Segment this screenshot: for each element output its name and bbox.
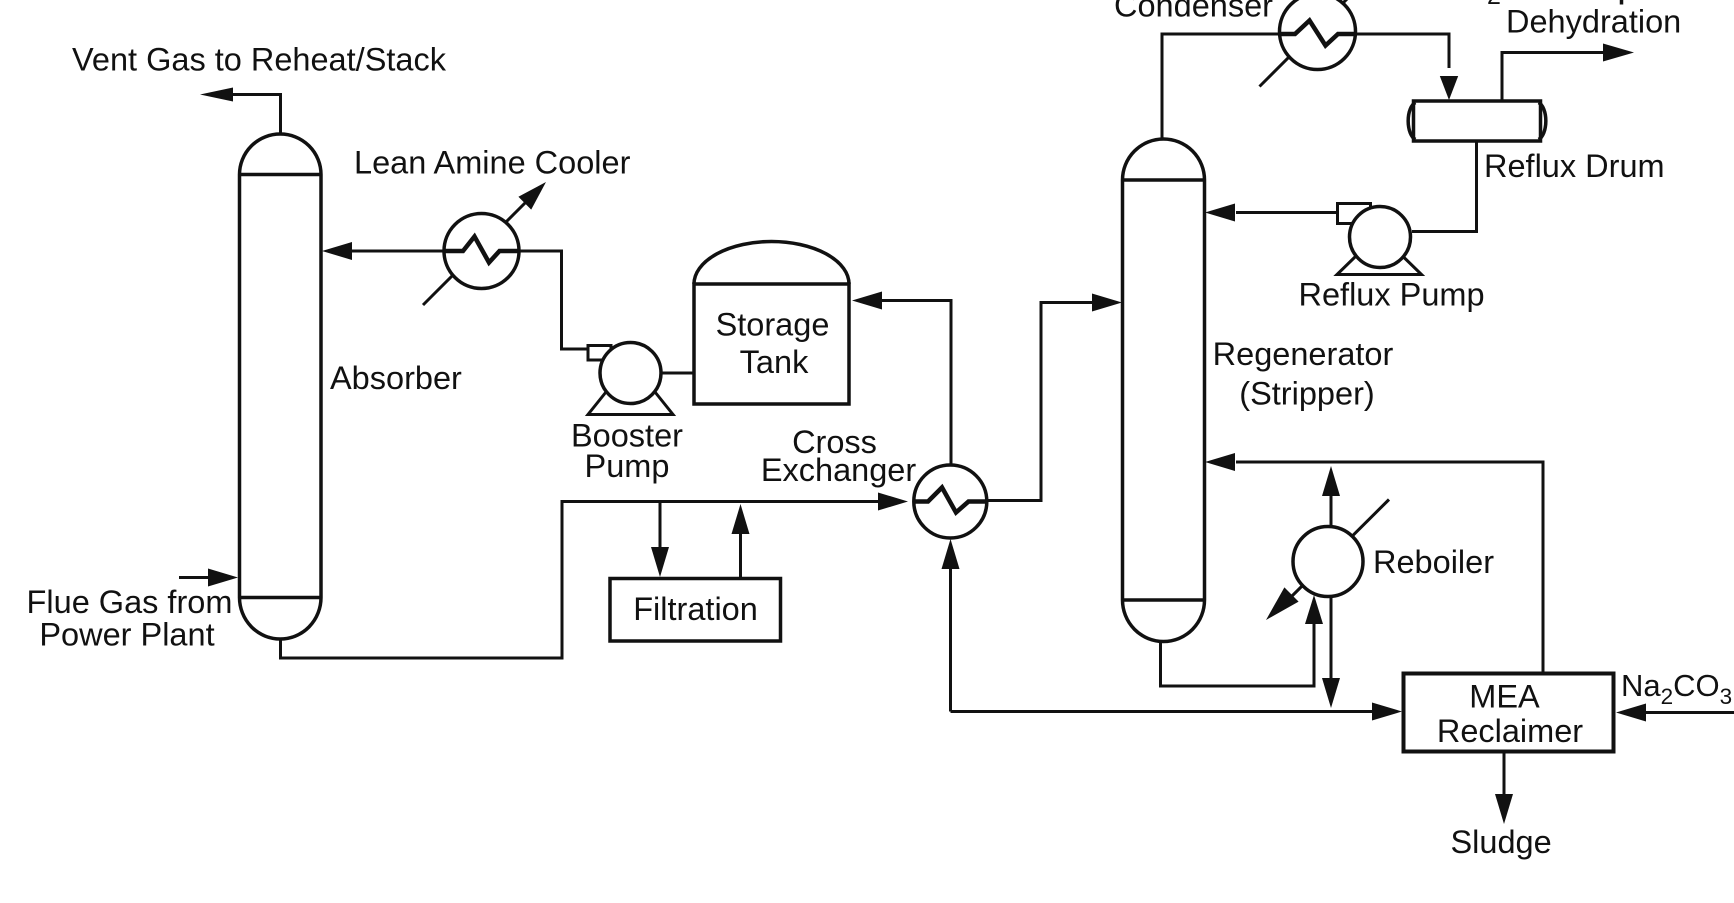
arrowhead CO2 to dehydration bbox=[1603, 44, 1634, 62]
svg-text:Sludge: Sludge bbox=[1451, 824, 1552, 860]
arrowhead up into reboiler bbox=[1305, 595, 1323, 624]
regenerator top weld line bbox=[1123, 178, 1205, 182]
arrowhead down into filtration bbox=[651, 547, 669, 577]
cooler zigzag bbox=[444, 237, 519, 263]
heat exchanger Condenser circle bbox=[1280, 0, 1356, 70]
reflux drum left end cap bbox=[1408, 103, 1415, 140]
booster pump circle bbox=[600, 343, 661, 404]
wire vent gas line from absorber top bbox=[232, 95, 281, 135]
wire reboiler top riser bbox=[1330, 496, 1333, 527]
wire absorber bottom to cross exchanger bbox=[281, 502, 879, 659]
wire CO2 gas outlet from drum bbox=[1502, 53, 1604, 102]
arrowhead flue gas into absorber bbox=[208, 569, 238, 587]
arrowhead up into cross exchanger bottom bbox=[942, 539, 960, 569]
cross exchanger zigzag bbox=[914, 488, 987, 513]
wire flue gas inlet line bbox=[179, 576, 208, 579]
arrowhead rich amine into cross exchanger bbox=[878, 493, 908, 511]
svg-text:Reboiler: Reboiler bbox=[1373, 544, 1494, 580]
arrowhead down into reflux drum bbox=[1440, 76, 1458, 100]
wire booster pump outlet to storage tank bbox=[661, 372, 694, 375]
svg-text:Pump: Pump bbox=[585, 448, 670, 484]
svg-text:MEA: MEA bbox=[1469, 679, 1540, 715]
reboiler utility diagonal bbox=[1289, 500, 1389, 600]
vessel Storage Tank body bbox=[694, 284, 849, 404]
vessel Reflux Drum bbox=[1414, 101, 1541, 141]
svg-text:Storage: Storage bbox=[716, 307, 830, 343]
arrowhead cooler utility (up-right) bbox=[518, 182, 546, 210]
svg-text:Absorber: Absorber bbox=[330, 360, 462, 396]
heat exchanger Lean Amine Cooler circle bbox=[444, 214, 519, 289]
condenser zigzag bbox=[1280, 21, 1356, 46]
svg-text:Vent Gas to Reheat/Stack: Vent Gas to Reheat/Stack bbox=[72, 42, 447, 78]
vessel Regenerator outline bbox=[1123, 139, 1205, 641]
arrowhead Na2CO3 into reclaimer bbox=[1616, 704, 1646, 722]
wire filtration return bbox=[739, 533, 742, 579]
wire lean amine header to MEA reclaimer bbox=[951, 710, 1374, 713]
heat exchanger Cross Exchanger circle bbox=[914, 465, 987, 538]
svg-text:Condenser: Condenser bbox=[1114, 0, 1273, 24]
arrowhead vapor into regenerator bbox=[1205, 453, 1235, 471]
svg-text:Reclaimer: Reclaimer bbox=[1437, 713, 1583, 749]
wire filtration feed tee bbox=[659, 502, 662, 549]
arrowhead up from filtration bbox=[732, 504, 750, 534]
pump Booster Pump suction box bbox=[588, 346, 611, 361]
arrowhead into storage tank bbox=[852, 292, 882, 310]
arrowhead lean amine into absorber bbox=[322, 242, 352, 260]
booster pump base bbox=[588, 392, 673, 415]
arrowhead reflux into regenerator bbox=[1205, 204, 1235, 222]
box Filtration bbox=[610, 579, 781, 642]
svg-text:Flue Gas from: Flue Gas from bbox=[27, 584, 233, 620]
reflux pump circle bbox=[1350, 207, 1411, 268]
arrowhead up into vapor line bbox=[1322, 466, 1340, 496]
svg-text:Filtration: Filtration bbox=[633, 591, 758, 627]
arrowhead vent gas (left) bbox=[200, 88, 233, 102]
wire drum bottom to reflux pump bbox=[1412, 141, 1477, 232]
wire reboiler bottom drain bbox=[1330, 596, 1333, 678]
arrowhead rich amine into regenerator bbox=[1092, 294, 1122, 312]
svg-text:Power Plant: Power Plant bbox=[39, 617, 214, 653]
svg-text:Tank: Tank bbox=[740, 344, 809, 380]
svg-text:Regenerator: Regenerator bbox=[1213, 336, 1394, 372]
absorber top weld line bbox=[240, 173, 322, 177]
pump Reflux Pump suction box bbox=[1338, 204, 1371, 224]
arrowhead sludge down bbox=[1495, 794, 1513, 824]
arrowhead into MEA reclaimer bbox=[1372, 703, 1402, 721]
regenerator bottom weld line bbox=[1123, 598, 1205, 602]
wire reboiler vapor return line bbox=[1236, 462, 1543, 674]
heat exchanger Reboiler circle bbox=[1293, 527, 1363, 597]
vessel Storage Tank dome bbox=[694, 242, 849, 285]
absorber bottom weld line bbox=[240, 596, 322, 600]
svg-text:Na2CO3: Na2CO3 bbox=[1621, 668, 1732, 709]
svg-text:Reflux Pump: Reflux Pump bbox=[1299, 277, 1485, 313]
condenser utility diagonal bbox=[1260, 0, 1353, 87]
svg-text:(Stripper): (Stripper) bbox=[1239, 376, 1374, 412]
wire sludge outlet bbox=[1503, 752, 1506, 795]
wire hot lean amine up into cross exchanger bbox=[949, 568, 952, 712]
svg-text:2: 2 bbox=[1487, 0, 1501, 10]
wire lean amine to absorber (from cooler) bbox=[352, 250, 444, 253]
wire regenerator bottoms to reboiler bbox=[1161, 623, 1315, 686]
wire cooler outlet to booster pump bbox=[519, 251, 589, 349]
box MEA Reclaimer bbox=[1404, 674, 1614, 752]
wire reflux to regenerator bbox=[1236, 211, 1338, 214]
cooler utility diagonal bbox=[423, 195, 533, 305]
label fragment descender bbox=[1620, 0, 1624, 5]
reflux drum right end cap bbox=[1539, 103, 1546, 140]
reflux pump base bbox=[1337, 256, 1422, 275]
arrowhead reboiler condensate (down-left) bbox=[1266, 587, 1299, 620]
wire regenerator overhead to condenser to drum bbox=[1162, 34, 1449, 139]
arrowhead down to lean line bbox=[1322, 678, 1340, 708]
svg-text:Exchanger: Exchanger bbox=[761, 452, 917, 488]
svg-text:Dehydration: Dehydration bbox=[1506, 4, 1681, 40]
svg-text:Lean Amine Cooler: Lean Amine Cooler bbox=[354, 145, 631, 181]
vessel Absorber outline bbox=[240, 134, 322, 639]
wire cross exchanger to regenerator bbox=[987, 303, 1092, 501]
svg-text:Reflux Drum: Reflux Drum bbox=[1484, 148, 1665, 184]
wire Na2CO3 inlet bbox=[1646, 711, 1734, 714]
wire lean amine return to tank bbox=[882, 301, 951, 466]
